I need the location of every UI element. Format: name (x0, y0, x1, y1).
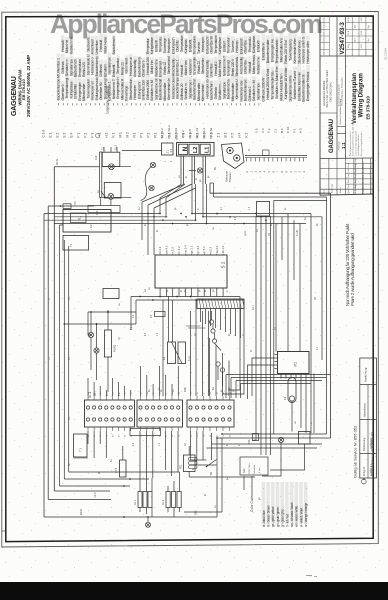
svg-text:4b 1.2: 4b 1.2 (221, 245, 225, 253)
svg-text:rt - rot / red: rt - rot / red (285, 514, 289, 527)
svg-text:2a 4.2: 2a 4.2 (215, 245, 219, 253)
extra wires fan to S2 (142, 184, 196, 255)
bottom enclosure closing wires (207, 434, 331, 448)
svg-text:Zeichnung verbleibt uns. Sie d: Zeichnung verbleibt uns. Sie darf ohne (352, 121, 355, 156)
small dashes below frame (306, 575, 312, 577)
svg-text:K 2: K 2 (245, 132, 249, 137)
svg-text:P 2: P 2 (147, 133, 151, 138)
S1 terminal strip block A (85, 391, 135, 431)
svg-text:X13: X13 (95, 155, 98, 160)
terminal strip hatched (197, 299, 244, 309)
svg-text:F 5: F 5 (231, 133, 235, 138)
svg-text:Anderung: Anderung (354, 185, 357, 194)
svg-text:H 5: H 5 (299, 128, 303, 133)
svg-text:K 1: K 1 (112, 132, 116, 137)
bus y312 and y324 (64, 311, 136, 325)
legend tick row (59, 103, 259, 105)
connector comb X2 (245, 148, 307, 173)
svg-text:EB 378-610: EB 378-610 (365, 96, 370, 120)
svg-text:Urz: Urz (367, 25, 370, 28)
svg-text:br: br (204, 494, 207, 496)
svg-text:E 1: E 1 (49, 132, 53, 137)
svg-text:42.1: 42.1 (252, 305, 255, 310)
legend designator row (42, 126, 303, 137)
junction dots on buses (63, 213, 266, 487)
svg-text:Zust: Zust (323, 189, 326, 193)
svg-text:Legende / Legend: Legende / Legend (106, 86, 110, 113)
S2 selector switch box (155, 255, 227, 288)
svg-text:Mikroschalter Ans: Mikroschalter Ans (280, 38, 284, 63)
svg-text:Zust: Zust (347, 168, 350, 172)
black footer bar (0, 582, 388, 600)
fuse F1 (149, 312, 165, 319)
svg-text:N: N (182, 146, 189, 151)
svg-text:Datum: Datum (339, 187, 342, 193)
svg-text:sw: sw (173, 389, 175, 392)
revision table top-right grid (320, 16, 373, 56)
svg-text:vi 2.3: vi 2.3 (209, 246, 213, 253)
svg-text:sw: sw (144, 289, 147, 292)
svg-text:vi - violett / violet: vi - violett / violet (299, 508, 303, 527)
svg-text:gn 3.2: gn 3.2 (196, 245, 200, 253)
S2 pin stubs below (160, 288, 223, 297)
misc wire labels (48, 231, 317, 420)
svg-text:1.41.2: 1.41.2 (181, 130, 185, 139)
note Nur 2 Punkt (345, 223, 355, 306)
circled designator (96, 134, 100, 138)
left lamp wires down (101, 147, 117, 206)
svg-text:E 4: E 4 (70, 132, 74, 137)
svg-text:X7A: X7A (248, 439, 251, 444)
svg-text:L1: L1 (204, 147, 210, 153)
svg-text:E 3: E 3 (63, 132, 67, 137)
svg-text:1c: 1c (230, 392, 232, 394)
wire lamp H4 stub (189, 170, 196, 172)
svg-text:F1.3: F1.3 (94, 492, 97, 498)
svg-text:Datum: Datum (362, 161, 365, 167)
svg-text:Urz: Urz (367, 38, 370, 41)
divider in left cell (320, 112, 337, 114)
svg-text:Z1: Z1 (166, 150, 170, 154)
svg-text:sw - schwarz / black: sw - schwarz / black (290, 502, 294, 527)
title block frame (320, 16, 373, 195)
svg-text:3-4293-47: 3-4293-47 (369, 464, 373, 476)
svg-text:Verdrahtungsplan: Verdrahtungsplan (352, 73, 358, 124)
svg-text:GAGGENAU-WERKE: GAGGENAU-WERKE (322, 80, 326, 106)
svg-text:N: N (48, 298, 51, 300)
svg-text:Zchg.Nr: Zchg.Nr (362, 467, 366, 476)
svg-text:Grillheizk 2000 W: Grillheizk 2000 W (262, 77, 266, 102)
wires from X1 terminals down (160, 156, 207, 224)
svg-text:Heizkorper unten G: Heizkorper unten G (302, 36, 306, 63)
svg-text:ge 1.1: ge 1.1 (190, 245, 194, 253)
long mid labels (160, 125, 213, 139)
svg-text:Datum: Datum (323, 35, 326, 41)
svg-text:P1: P1 (294, 362, 298, 367)
svg-text:P1.3-N: P1.3-N (188, 129, 192, 138)
svg-text:sw: sw (149, 287, 151, 290)
horizontal bundle below P1 (226, 375, 331, 399)
svg-text:B 1: B 1 (224, 132, 228, 137)
wires right section verticals (253, 214, 305, 477)
inner right box frame (274, 201, 327, 435)
svg-text:Name: Name (371, 172, 373, 178)
wires S1 down to elements (140, 431, 178, 484)
svg-text:Heissluft 2000 W Entst: Heissluft 2000 W Entst (266, 69, 270, 100)
P1 clock module (275, 352, 310, 379)
svg-text:S 2: S 2 (221, 261, 226, 268)
scattered tiny wire labels (69, 206, 319, 508)
bus y206 (48, 201, 94, 208)
svg-text:ws 4.1: ws 4.1 (164, 245, 168, 254)
svg-text:Datum: Datum (323, 49, 326, 55)
resistor R vertical (115, 446, 126, 477)
svg-text:Entstorfilter K: Entstorfilter K (262, 42, 266, 61)
svg-text:N 1: N 1 (133, 132, 137, 137)
company address text (322, 70, 333, 108)
svg-text:Datum: Datum (362, 177, 365, 183)
svg-text:Name: Name (371, 161, 373, 167)
heating element RH2 (162, 472, 181, 517)
svg-text:ws - weiss / white: ws - weiss / white (295, 505, 299, 527)
fold tick left border (2, 530, 6, 532)
svg-text:M 1: M 1 (119, 132, 123, 138)
svg-text:12.6: 12.6 (244, 231, 247, 236)
wire top connecting E1 to Z1 (122, 150, 162, 152)
svg-text:H 4: H 4 (238, 132, 242, 137)
svg-text:P1.1-S1.2: P1.1-S1.2 (167, 125, 171, 139)
svg-text:Klemmleiste Unter: Klemmleiste Unter (293, 37, 297, 63)
svg-text:X1: X1 (169, 148, 173, 152)
S2 pin labels above (158, 245, 225, 255)
svg-text:Steckverbindung: Steckverbindung (297, 40, 301, 63)
svg-text:7c: 7c (106, 435, 108, 437)
svg-text:Prare 2 wurde Aufhangung geand: Prare 2 wurde Aufhangung geandert wird (350, 233, 355, 306)
svg-text:Abmessung: Abmessung (363, 403, 367, 417)
svg-text:Energieregler He: Energieregler He (271, 39, 275, 62)
connector X right (248, 434, 259, 445)
color code columns (262, 482, 309, 527)
svg-text:4.2: 4.2 (90, 224, 93, 228)
lamp on bottom wire (146, 517, 151, 527)
svg-text:40 W: 40 W (56, 159, 59, 165)
circled B mark (361, 479, 366, 484)
svg-text:Schaltuhr m. Motor Ene: Schaltuhr m. Motor Ene (275, 67, 279, 100)
svg-text:Name: Name (371, 187, 373, 193)
svg-text:H 2: H 2 (105, 132, 109, 137)
timer box SA2 (240, 457, 268, 496)
Werkstoff cell (337, 126, 346, 128)
inner right box with component (256, 202, 271, 406)
wire E1 left to enclosure (54, 166, 99, 168)
svg-text:YE1: YE1 (181, 464, 183, 469)
svg-text:Signallampe rot Re: Signallampe rot Re (288, 75, 292, 101)
svg-text:7c: 7c (147, 435, 149, 437)
relay K1 boxes (162, 342, 191, 364)
svg-text:Name: Name (371, 177, 373, 183)
svg-text:or - orange / orange: or - orange / orange (304, 502, 308, 527)
svg-text:1:1: 1:1 (341, 142, 346, 149)
svg-text:Color Code: Color Code (250, 496, 254, 512)
svg-text:rt 1.3: rt 1.3 (171, 247, 175, 254)
svg-text:P 1: P 1 (140, 133, 144, 138)
svg-text:Entstorfil: Entstorfil (256, 40, 260, 52)
hatch strip lower pin wires (186, 309, 241, 339)
svg-text:Das Urheberrecht an dieser: Das Urheberrecht an dieser (349, 131, 352, 156)
svg-text:7c: 7c (204, 392, 206, 394)
svg-text:ge - gelb / yellow: ge - gelb / yellow (271, 506, 275, 527)
svg-text:Ausfuhrung: Ausfuhrung (364, 367, 368, 382)
svg-text:sw: sw (179, 175, 181, 178)
small box right (299, 432, 311, 445)
svg-text:208V/240V AC 5000W, 23 AMP: 208V/240V AC 5000W, 23 AMP (26, 55, 31, 117)
svg-text:br 6.2: br 6.2 (177, 246, 181, 254)
lamp H1 with curly wire (150, 162, 155, 167)
svg-text:Chassis: Chassis (228, 172, 232, 182)
svg-text:PE: PE (215, 166, 217, 170)
svg-text:P1.4-S2: P1.4-S2 (209, 127, 213, 138)
svg-text:br: br (184, 290, 187, 292)
svg-text:18 W: 18 W (80, 509, 83, 515)
heating element RH1 (134, 478, 152, 517)
S1-A lower wires (74, 431, 107, 458)
svg-text:S1.4-K1: S1.4-K1 (174, 127, 178, 138)
svg-text:S1.41.2: S1.41.2 (160, 128, 164, 139)
svg-text:Datum: Datum (323, 42, 326, 48)
ground lug Gehaeuse (222, 143, 245, 169)
svg-text:Heizkorper oben: Heizkorper oben (306, 41, 310, 64)
filter box Z1 (162, 143, 174, 155)
svg-text:unsere Genehmigung weder: unsere Genehmigung weder (355, 130, 357, 156)
wires middle verticals to S1 (163, 297, 209, 397)
svg-text:gn - grun / green: gn - grun / green (276, 506, 280, 527)
S1-A upper pin wires (88, 378, 131, 396)
strip under block A (130, 429, 161, 436)
svg-text:E 2: E 2 (56, 132, 60, 137)
left verticals bundle (44, 206, 160, 517)
svg-text:Energieregler Heizkor: Energieregler Heizkor (306, 71, 310, 102)
S1 terminal strip block B (137, 396, 183, 431)
svg-text:Benennung: Benennung (362, 437, 366, 451)
svg-text:R1.2: R1.2 (162, 499, 165, 505)
svg-text:Datum: Datum (323, 15, 326, 21)
svg-text:Zust: Zust (347, 163, 350, 167)
svg-text:Entstorfilter Klemmlei: Entstorfilter Klemmlei (297, 72, 301, 101)
svg-text:Schaltuhr: Schaltuhr (253, 464, 256, 474)
svg-text:Zust: Zust (347, 184, 350, 188)
svg-text:Datum: Datum (362, 187, 365, 193)
left enclosure vertical (53, 167, 55, 491)
svg-text:sw 2.4: sw 2.4 (183, 245, 187, 254)
lower small box (63, 236, 89, 251)
bottom right vertical wires (184, 433, 222, 517)
svg-text:Datum: Datum (362, 172, 365, 178)
copyright tiny text (349, 121, 363, 156)
svg-text:Netzklemme: Netzklemme (69, 37, 73, 55)
svg-text:sw: sw (139, 207, 141, 210)
svg-text:Netzklemme: Netzklemme (256, 57, 260, 75)
small box above left mid (103, 289, 119, 299)
Massstab cell 1:1 (337, 133, 346, 135)
svg-text:gr - grau / grey: gr - grau / grey (281, 509, 285, 527)
svg-text:X14: X14 (96, 210, 99, 215)
lamp H4 (197, 168, 202, 173)
svg-text:Name: Name (371, 182, 373, 188)
svg-text:Aufkleber: Aufkleber (369, 438, 373, 449)
left mid components P2 lamps (88, 310, 116, 392)
svg-text:L2: L2 (193, 147, 199, 153)
revision table tiny texts (323, 15, 370, 55)
svg-text:br: br (180, 290, 183, 292)
svg-text:7560 GAGGENAU: 7560 GAGGENAU (330, 82, 333, 102)
svg-text:SA2: SA2 (243, 468, 246, 473)
svg-text:Name: Name (371, 166, 373, 172)
svg-text:Kuhlgeblase 18 W Mikr: Kuhlgeblase 18 W Mikr (284, 67, 288, 100)
bearbeitet column tiny text (337, 76, 343, 106)
svg-text:F 2: F 2 (84, 133, 88, 138)
svg-text:1c: 1c (197, 435, 199, 437)
svg-text:gr 5.1: gr 5.1 (202, 246, 206, 254)
svg-text:Y 2: Y 2 (267, 128, 271, 133)
svg-text:Backofenschalter St: Backofenschalter St (302, 74, 306, 101)
svg-text:C 10: C 10 (286, 126, 290, 133)
legend right tall columns (262, 32, 311, 102)
svg-text:Zust: Zust (347, 189, 350, 193)
svg-text:X 6: X 6 (261, 128, 265, 133)
svg-text:Werkstoff und Abmessung: Werkstoff und Abmessung (339, 98, 342, 124)
svg-text:Datum: Datum (362, 182, 365, 188)
svg-text:6 min: 6 min (259, 467, 261, 473)
svg-text:B16: B16 (195, 510, 198, 515)
svg-text:220V 50Hz: 220V 50Hz (249, 463, 251, 474)
svg-text:B: B (362, 478, 366, 480)
svg-text:F 6: F 6 (292, 128, 296, 133)
svg-text:31.10.84: 31.10.84 (384, 48, 388, 60)
svg-text:K1: K1 (162, 356, 166, 360)
lamp right (278, 437, 283, 442)
svg-text:V2547-93-3: V2547-93-3 (339, 22, 346, 55)
terminal strip X1 N/L2/L1 (169, 143, 214, 157)
svg-text:Wiring Diagram: Wiring Diagram (359, 73, 365, 117)
big right enclosure top (210, 183, 331, 438)
buzzer capsule P2 (283, 378, 296, 403)
svg-text:X 5: X 5 (255, 128, 259, 133)
svg-text:br: br (195, 178, 198, 180)
nested wires P1 to S1 (223, 297, 315, 434)
svg-text:Gehause: Gehause (225, 171, 229, 182)
lamp H2 on curve (149, 185, 154, 190)
nested bottom return wires (44, 472, 217, 518)
svg-text:R1.1: R1.1 (134, 499, 137, 505)
svg-text:S1.1-X2: S1.1-X2 (195, 127, 199, 138)
svg-text:bl 2.2: bl 2.2 (158, 246, 162, 253)
svg-text:Personen mitgeteilt werden: Personen mitgeteilt werden (360, 132, 363, 156)
svg-text:7c: 7c (166, 392, 168, 394)
bottom revision grid (320, 158, 373, 194)
svg-text:T 3: T 3 (79, 448, 83, 452)
right strip table (360, 358, 377, 478)
top area wire labels (165, 137, 217, 182)
S1-B upper pin wires (141, 366, 179, 396)
svg-text:Z 2: Z 2 (274, 128, 278, 133)
strip table texts (362, 367, 374, 476)
S1 terminal strip block C (187, 396, 234, 431)
wires S1 blocks down right (191, 431, 217, 465)
S1 pin labels (88, 391, 232, 437)
svg-text:Zust: Zust (347, 174, 350, 178)
svg-text:C 1-9: C 1-9 (42, 129, 46, 137)
svg-text:Datum: Datum (323, 22, 326, 28)
svg-text:Z 1: Z 1 (217, 133, 221, 138)
svg-text:Anf: Anf (353, 38, 356, 42)
svg-text:M 2: M 2 (126, 132, 130, 138)
N1 control box (60, 210, 112, 233)
svg-text:7c: 7c (125, 392, 127, 394)
svg-text:Datum: Datum (323, 29, 326, 35)
svg-text:R1/R2: R1/R2 (113, 344, 117, 352)
switch diagonal (206, 460, 217, 476)
svg-text:Temperaturwahle: Temperaturwahle (275, 39, 279, 63)
horizontal buses center (44, 213, 322, 225)
svg-text:bl - blau / blue: bl - blau / blue (262, 510, 266, 527)
svg-text:Anderung: Anderung (331, 184, 334, 193)
legend text block (57, 32, 261, 101)
connector circles chain (209, 311, 224, 386)
svg-text:Temperaturregler Ba: Temperaturregler Ba (271, 72, 275, 100)
svg-text:Turverriegelung: Turverriegelung (288, 39, 292, 61)
svg-text:Motor Heiss: Motor Heiss (103, 37, 107, 54)
svg-text:1c: 1c (100, 392, 102, 394)
svg-text:Relais 220 V Erd: Relais 220 V Erd (284, 40, 288, 63)
svg-text:vervielfaltigt noch dritten: vervielfaltigt noch dritten (357, 134, 360, 156)
S1-C upper pin wires bending left (210, 338, 230, 396)
svg-text:1c: 1c (131, 435, 133, 437)
svg-text:Netzklemme Turverri: Netzklemme Turverri (293, 70, 297, 99)
svg-text:Backofensch: Backofensch (112, 36, 116, 54)
svg-text:F 3: F 3 (91, 133, 95, 138)
T3 box (74, 434, 88, 457)
svg-text:GAGGENAU: GAGGENAU (329, 119, 335, 153)
svg-text:1c: 1c (172, 435, 174, 437)
bottom grid tiny texts (323, 159, 373, 194)
solenoid YE1 (181, 446, 256, 477)
svg-text:K1-41.2: K1-41.2 (202, 128, 206, 139)
svg-text:1c: 1c (141, 392, 143, 394)
oven lamp assembly E1 (88, 144, 131, 215)
svg-text:P2: P2 (283, 396, 287, 400)
svg-text:F 1: F 1 (77, 133, 81, 138)
buses below S2 (131, 296, 244, 301)
svg-text:B 2: B 2 (280, 128, 284, 133)
svg-text:Datum: Datum (362, 166, 365, 172)
svg-text:Anf: Anf (353, 25, 356, 29)
svg-text:Zust: Zust (347, 179, 350, 183)
svg-text:br - braun / brown: br - braun / brown (267, 505, 271, 527)
left box bottom corner wires (88, 297, 136, 336)
svg-text:Motor Heissluft Tem: Motor Heissluft Tem (280, 73, 284, 100)
svg-text:Backofenschalter: Backofenschalter (266, 38, 270, 63)
svg-text:sw: sw (215, 505, 217, 508)
svg-text:br: br (156, 230, 159, 232)
svg-text:7c: 7c (223, 435, 225, 437)
svg-text:Gultig ab Service Nr. 856 052: Gultig ab Service Nr. 856 052 (352, 425, 357, 478)
svg-text:R 1: R 1 (154, 132, 158, 137)
svg-text:Signallampe: Signallampe (256, 83, 260, 100)
